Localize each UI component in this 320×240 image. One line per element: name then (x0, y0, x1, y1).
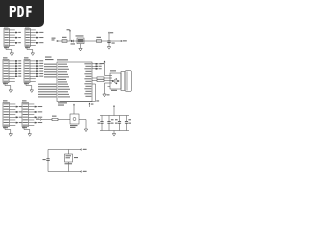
power flag VIN (67, 29, 71, 41)
fuse F1 (62, 37, 67, 43)
crystal terminal XTAL1 (81, 149, 87, 150)
connector J3 (3, 57, 21, 84)
wire USB pin4 to ground (105, 83, 111, 94)
connector J2 (25, 26, 43, 48)
crystal Y1 16MHz (65, 150, 79, 172)
ground under SW1 (84, 129, 87, 132)
wire from U1 to R3 (92, 80, 97, 82)
diode D1 (71, 40, 76, 45)
resistor R2 (97, 77, 104, 79)
wire power rail (58, 40, 121, 42)
wire VBUS to USB pin1 (105, 75, 111, 77)
resistor R3 (97, 79, 104, 81)
connector J1 (4, 26, 21, 48)
capacitor C5 (125, 116, 131, 131)
ground under J6 (24, 127, 32, 137)
wire from U1 to R2 (92, 77, 97, 79)
wire cap bank bottom rail (100, 130, 129, 132)
wire reset (41, 119, 52, 121)
power flag above SW1 (73, 104, 75, 115)
connector J6 (22, 100, 42, 128)
ground under J2 (27, 47, 35, 56)
capacitor C3 (107, 116, 113, 131)
reset terminal (36, 119, 41, 121)
power flag above cap bank (113, 105, 115, 116)
IC U1 ATMEGA328P (57, 59, 92, 101)
U1 left pin labels group B (38, 84, 70, 98)
power flag 3V3 (89, 103, 94, 108)
PDF badge (0, 0, 44, 27)
capacitor C4 (115, 116, 121, 131)
wire R2 to USB (104, 77, 110, 79)
ground under J5 (5, 127, 13, 137)
ground under J3 (5, 83, 13, 93)
USB connector J7 (110, 70, 132, 91)
power flag VBUS (100, 61, 105, 76)
U1 right pin names (58, 63, 91, 105)
regulator U2 (76, 35, 85, 43)
wire U1 right vertical net (92, 84, 96, 102)
crystal terminal XTAL2 (81, 171, 87, 172)
capacitor C6 (43, 150, 50, 172)
wire crystal top rail (48, 149, 81, 151)
U1 left pin gap rows (58, 79, 67, 83)
ground under U2 (79, 44, 82, 51)
ground under cap bank (112, 131, 115, 137)
wire crystal bottom rail (48, 171, 81, 173)
pushbutton SW1 (70, 114, 79, 128)
ground under J4 (26, 83, 34, 93)
power input terminal P1 (52, 38, 59, 42)
capacitor C2 (98, 116, 104, 131)
connector J4 (24, 57, 43, 84)
resistor R1 (52, 116, 58, 121)
power flag +5V (108, 32, 113, 42)
ground under USB (103, 94, 110, 97)
output terminal (121, 40, 127, 41)
ground under J1 (6, 47, 14, 56)
capacitor C1 (107, 41, 114, 47)
wire R1 to SW1 (58, 119, 70, 121)
wire cap bank top rail (100, 115, 129, 117)
wire R3 to USB (104, 80, 110, 82)
connector J5 (3, 100, 22, 128)
wire U1 bottom net (60, 100, 99, 101)
U1 right net flags (92, 63, 102, 70)
ferrite L1 (97, 37, 102, 43)
ground under C1 (107, 47, 110, 50)
U1 left pin labels group A (44, 57, 69, 78)
wire SW1 to ground (79, 120, 86, 130)
